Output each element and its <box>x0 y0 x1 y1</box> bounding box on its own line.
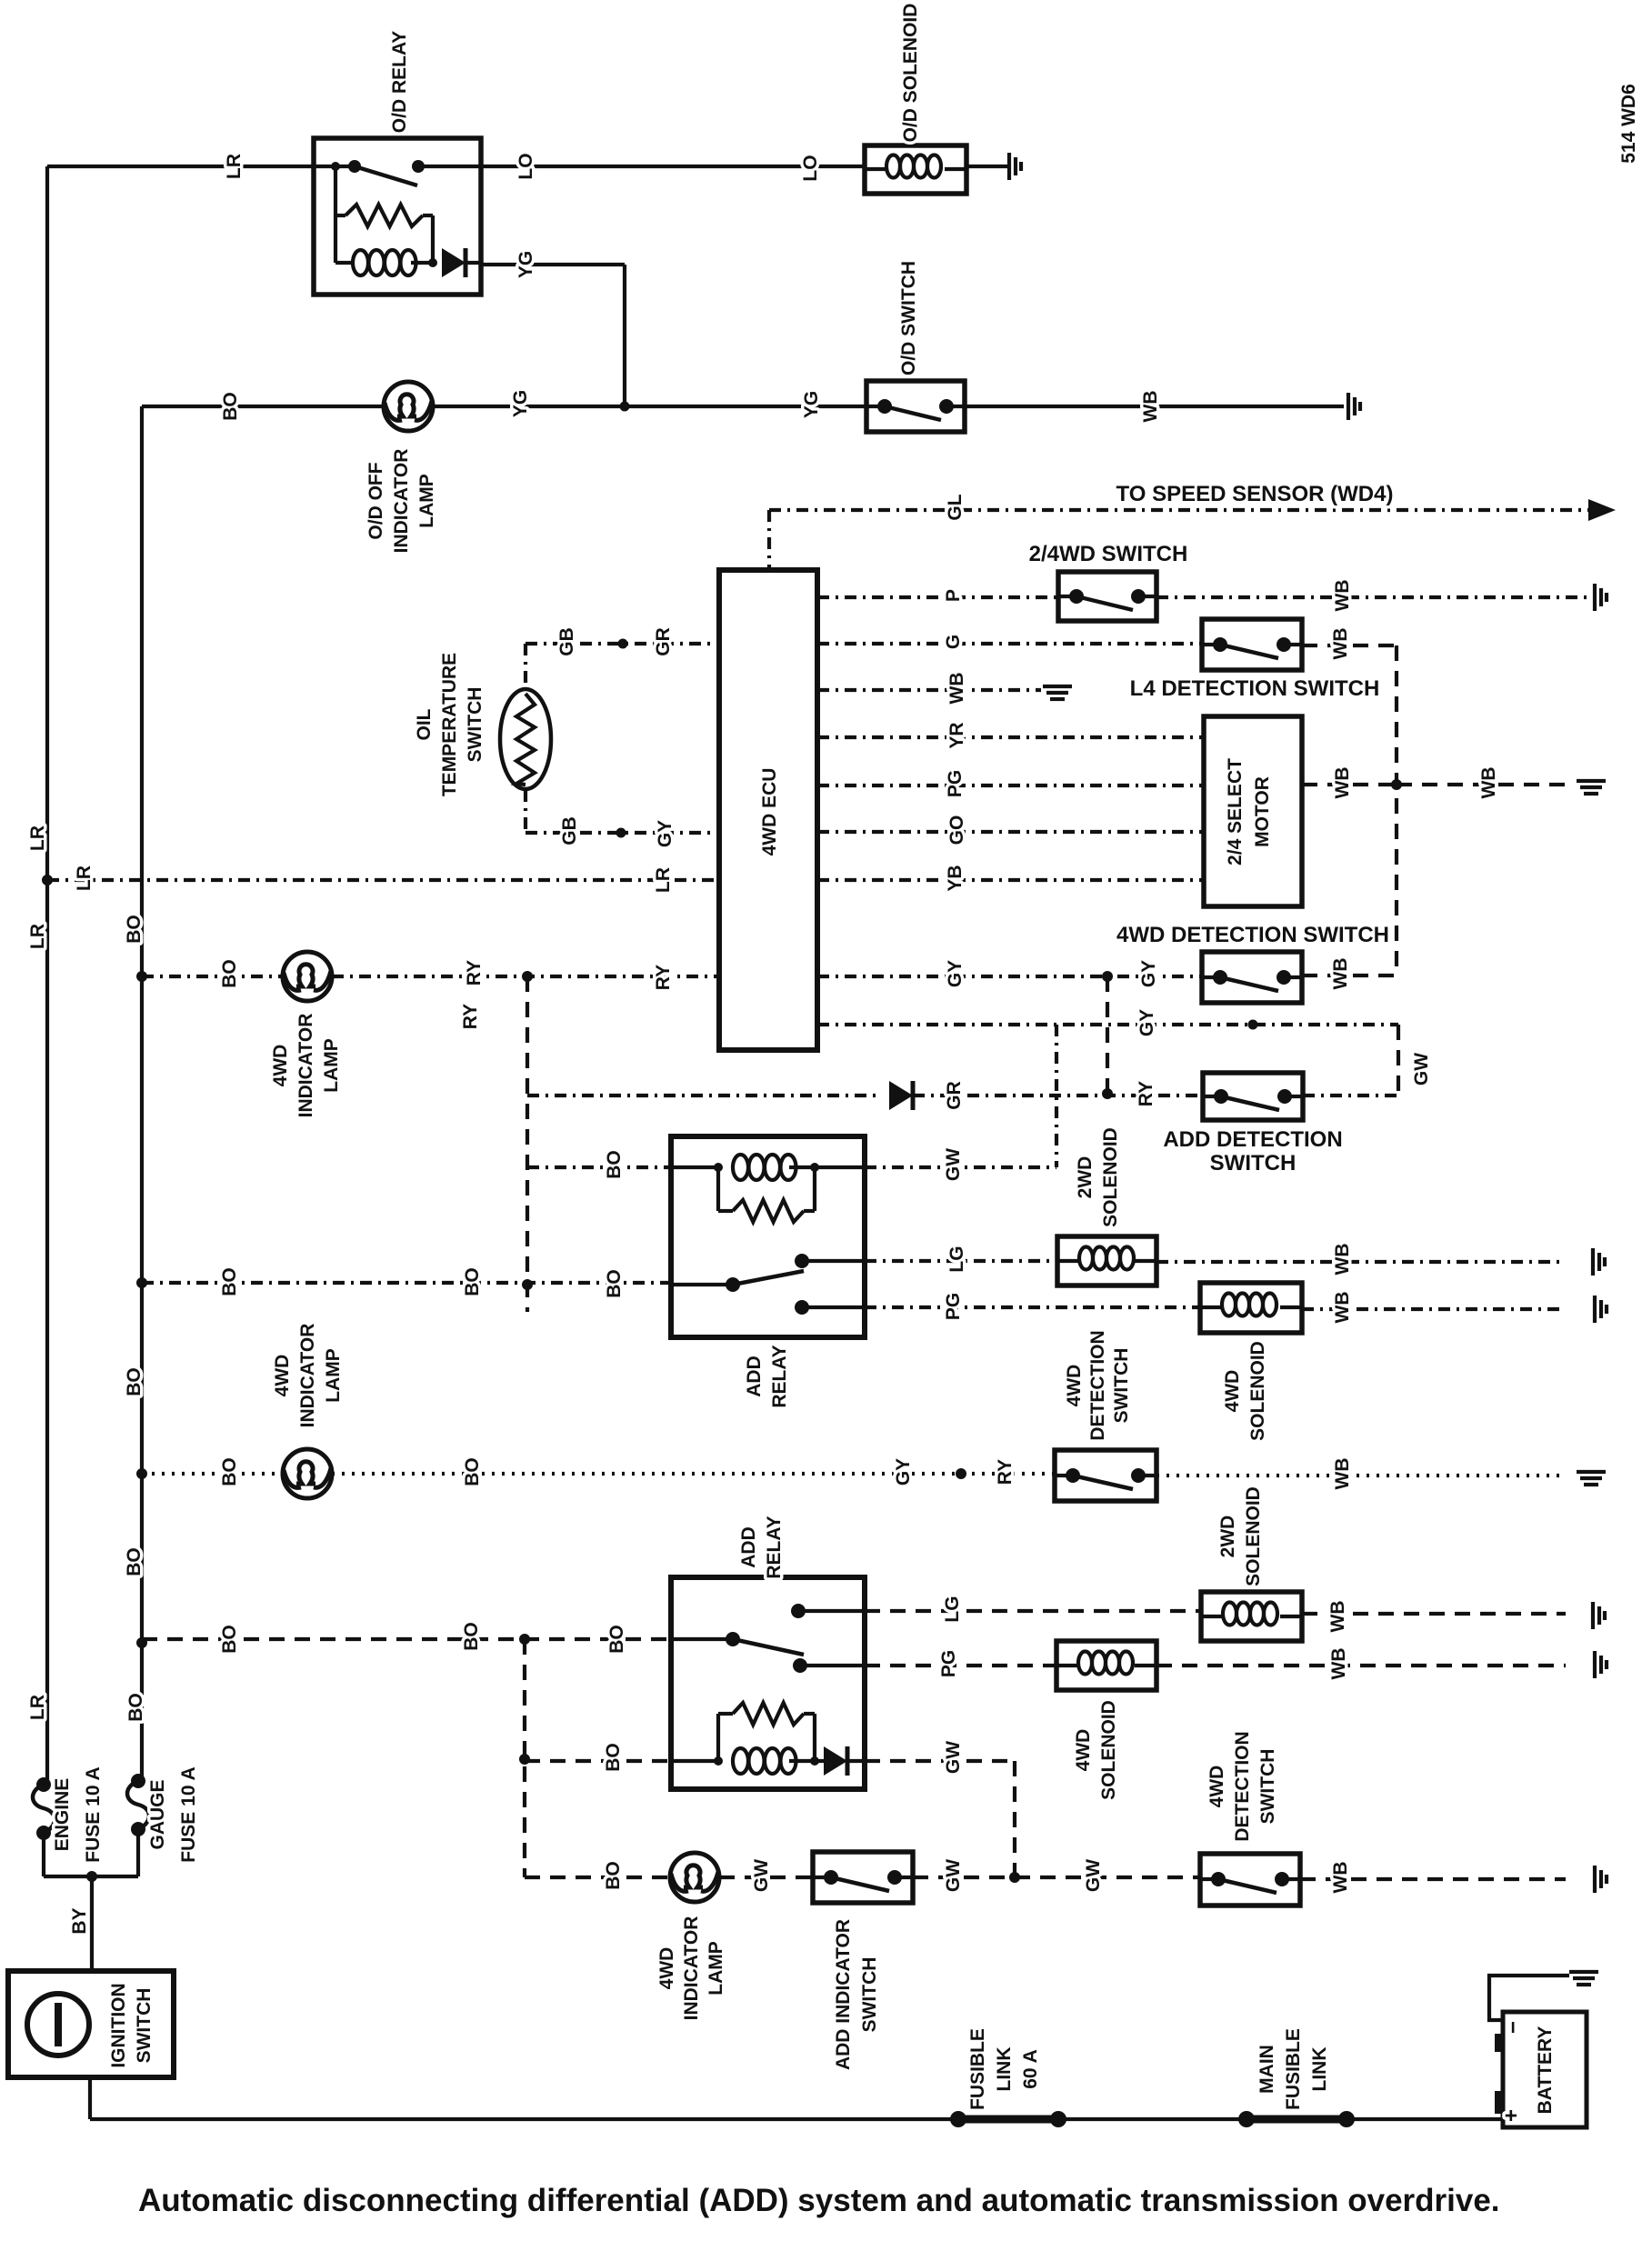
svg-text:LG: LG <box>946 1246 967 1272</box>
wire WB to ground <box>1156 595 1591 599</box>
ground 2WD solenoid <box>1593 1602 1605 1629</box>
svg-text:SOLENOID: SOLENOID <box>1247 1341 1268 1441</box>
wire GY to 4WD detection switch <box>817 975 1202 978</box>
wire WB from motor <box>1302 783 1397 786</box>
wire GW to ADD indicator switch <box>719 1876 813 1879</box>
svg-text:RY: RY <box>653 965 674 990</box>
ground 2/4WD switch <box>1595 584 1607 611</box>
fuse ENGINE FUSE 10 A <box>33 1777 55 1876</box>
svg-text:SWITCH: SWITCH <box>1210 1151 1297 1176</box>
wire PG to 4WD solenoid <box>865 1664 1056 1667</box>
svg-text:OIL: OIL <box>414 708 435 740</box>
wire GL into ECU top <box>767 510 771 570</box>
svg-text:LAMP: LAMP <box>321 1038 342 1093</box>
svg-text:LO: LO <box>516 153 536 179</box>
fusible link MAIN FUSIBLE LINK <box>1238 2111 1355 2127</box>
wire bottom bus <box>1058 2117 1247 2121</box>
wire GB GR to ECU <box>526 642 719 645</box>
junction BO <box>136 971 147 982</box>
svg-text:2WD: 2WD <box>1217 1516 1238 1558</box>
wire LR to ECU <box>47 878 719 882</box>
wire BO to ADD relay switch <box>142 1637 671 1641</box>
svg-text:PG: PG <box>938 1650 959 1677</box>
svg-text:LINK: LINK <box>994 2047 1015 2092</box>
ground select motor WB <box>1577 781 1606 794</box>
svg-text:4WD: 4WD <box>270 1045 291 1087</box>
svg-text:MAIN: MAIN <box>1257 2045 1277 2094</box>
wire GY vertical branch <box>1106 976 1109 1095</box>
wire BO second vertical bus <box>140 406 144 1781</box>
svg-text:O/D SOLENOID: O/D SOLENOID <box>900 4 921 143</box>
wire RY to ADD detection switch <box>913 1094 1202 1097</box>
wire from ignition switch <box>88 2077 92 2119</box>
wire LG to 2WD solenoid <box>865 1259 1057 1263</box>
wire YB to select motor <box>817 878 1204 882</box>
ECU 4WD ECU <box>719 570 817 1050</box>
svg-text:YG: YG <box>801 391 822 418</box>
wire WB to ground <box>1302 1307 1566 1311</box>
svg-text:WB: WB <box>1332 580 1353 612</box>
wire battery negative to ground <box>1489 1976 1569 2020</box>
wire GB GY to ECU <box>526 831 719 835</box>
svg-text:SWITCH: SWITCH <box>859 1957 880 2033</box>
svg-text:ADD: ADD <box>738 1526 759 1568</box>
svg-text:SWITCH: SWITCH <box>1111 1348 1132 1424</box>
svg-text:WB: WB <box>1140 391 1161 423</box>
svg-text:GW: GW <box>943 1859 964 1892</box>
svg-text:WB: WB <box>1328 1648 1349 1680</box>
svg-text:ADD: ADD <box>744 1356 765 1397</box>
svg-text:GAUGE: GAUGE <box>147 1779 168 1849</box>
wire GW from ADD relay <box>865 1759 1015 1763</box>
junction GY <box>1102 971 1113 982</box>
svg-text:GB: GB <box>556 627 577 656</box>
fusible link FUSIBLE LINK 60 A <box>950 2111 1066 2127</box>
svg-text:BO: BO <box>124 1547 145 1576</box>
svg-text:GR: GR <box>944 1081 965 1110</box>
svg-text:WB: WB <box>1330 628 1351 660</box>
diode in O/D relay <box>442 248 466 277</box>
svg-text:RELAY: RELAY <box>764 1516 785 1578</box>
wire GB from oil temp switch bottom <box>524 790 527 833</box>
svg-text:SOLENOID: SOLENOID <box>1243 1486 1264 1586</box>
svg-text:BO: BO <box>603 1743 624 1772</box>
svg-text:GW: GW <box>1411 1053 1432 1085</box>
junction WB <box>1391 779 1402 790</box>
svg-text:−: − <box>1501 2021 1526 2034</box>
junction BO <box>519 1754 530 1765</box>
wire GO to select motor <box>817 830 1204 834</box>
wire GL to speed sensor <box>769 508 1589 512</box>
svg-text:BO: BO <box>604 1150 625 1179</box>
svg-text:O/D RELAY: O/D RELAY <box>389 31 410 133</box>
svg-text:RELAY: RELAY <box>769 1345 790 1407</box>
svg-text:Automatic disconnecting differ: Automatic disconnecting differential (AD… <box>138 2183 1500 2218</box>
svg-text:GL: GL <box>945 494 966 520</box>
switch L4 DETECTION SWITCH <box>1202 619 1302 670</box>
switch 4WD DETECTION SWITCH <box>1200 1854 1300 1906</box>
svg-text:ENGINE: ENGINE <box>52 1778 73 1852</box>
svg-text:WB: WB <box>1330 1862 1351 1894</box>
svg-text:BO: BO <box>125 1693 146 1722</box>
arrow to speed sensor <box>1588 499 1616 521</box>
svg-text:LR: LR <box>27 825 48 851</box>
svg-text:SOLENOID: SOLENOID <box>1100 1127 1121 1227</box>
solenoid 2WD SOLENOID <box>1057 1236 1156 1286</box>
svg-text:SWITCH: SWITCH <box>465 687 486 763</box>
lamp 4WD INDICATOR LAMP <box>670 1853 719 1902</box>
svg-text:BO: BO <box>220 392 241 421</box>
junction <box>616 828 626 838</box>
svg-text:GW: GW <box>1083 1859 1104 1892</box>
svg-text:BO: BO <box>606 1625 627 1654</box>
svg-text:LR: LR <box>74 865 95 891</box>
svg-text:TEMPERATURE: TEMPERATURE <box>439 653 460 796</box>
svg-text:BO: BO <box>461 1622 482 1651</box>
ground 4WD detection switch <box>1577 1472 1606 1485</box>
svg-text:GY: GY <box>655 820 676 847</box>
svg-text:FUSIBLE: FUSIBLE <box>1283 2028 1304 2110</box>
svg-text:4WD: 4WD <box>1222 1370 1243 1413</box>
junction BO <box>136 1277 147 1288</box>
ground 2WD solenoid <box>1593 1248 1605 1276</box>
oil temperature switch <box>500 689 551 789</box>
relay ADD RELAY upper <box>671 1136 865 1337</box>
svg-text:2/4 SELECT: 2/4 SELECT <box>1225 758 1246 865</box>
diode on GR wire <box>889 1081 913 1110</box>
svg-text:WB: WB <box>1327 1601 1348 1633</box>
svg-text:IGNITION: IGNITION <box>108 1983 129 2067</box>
svg-text:BO: BO <box>219 1457 240 1486</box>
svg-text:DETECTION: DETECTION <box>1087 1330 1108 1440</box>
svg-text:BO: BO <box>219 1267 240 1296</box>
svg-text:BO: BO <box>603 1861 624 1890</box>
wire bottom bus <box>90 2117 958 2121</box>
wire RY to ECU <box>332 975 719 978</box>
svg-text:LR: LR <box>27 924 48 949</box>
svg-text:4WD: 4WD <box>1064 1365 1085 1407</box>
svg-text:DETECTION: DETECTION <box>1232 1731 1253 1841</box>
junction YG <box>620 402 630 412</box>
diode in ADD relay <box>824 1746 847 1776</box>
wire WB to ground <box>1156 1474 1566 1477</box>
ground ECU WB <box>1043 686 1072 699</box>
switch IGNITION SWITCH <box>8 1971 174 2077</box>
svg-text:514 WD6: 514 WD6 <box>1618 84 1639 164</box>
svg-text:L4 DETECTION SWITCH: L4 DETECTION SWITCH <box>1130 676 1380 701</box>
svg-text:GY: GY <box>1136 1009 1157 1036</box>
lamp O/D OFF INDICATOR LAMP <box>384 382 433 431</box>
svg-text:O/D OFF: O/D OFF <box>365 462 386 539</box>
wire to ground <box>966 165 1007 168</box>
svg-text:BO: BO <box>604 1269 625 1298</box>
junction <box>1102 1088 1113 1099</box>
svg-text:ADD DETECTION: ADD DETECTION <box>1163 1127 1342 1152</box>
wire BY to ignition switch <box>90 1876 94 1971</box>
ground 4WD detection switch <box>1595 1866 1607 1893</box>
svg-text:LG: LG <box>942 1596 963 1622</box>
wire WB to ground <box>1397 783 1566 786</box>
svg-text:LR: LR <box>27 1695 48 1720</box>
svg-text:LAMP: LAMP <box>416 474 437 528</box>
svg-text:G: G <box>943 635 964 649</box>
svg-text:2WD: 2WD <box>1075 1156 1096 1199</box>
wire WB to ground <box>1302 1612 1566 1616</box>
junction <box>956 1468 966 1479</box>
svg-text:4WD ECU: 4WD ECU <box>759 768 780 856</box>
battery BATTERY <box>1498 2012 1587 2127</box>
svg-text:YG: YG <box>516 251 536 278</box>
svg-text:INDICATOR: INDICATOR <box>295 1014 316 1118</box>
svg-text:FUSIBLE: FUSIBLE <box>967 2028 988 2110</box>
wire GW vertical <box>1013 1761 1016 1877</box>
wire WB to ground <box>817 688 1041 692</box>
ground O/D solenoid <box>1009 153 1021 180</box>
wire WB from L4 switch <box>1302 644 1397 647</box>
wire WB from 4WD detection switch <box>1302 974 1397 977</box>
wire WB to ground <box>965 405 1344 408</box>
svg-text:ADD INDICATOR: ADD INDICATOR <box>833 1919 854 2070</box>
junction RY BO <box>522 1279 533 1290</box>
svg-text:YR: YR <box>946 722 967 748</box>
ground 4WD solenoid <box>1595 1651 1607 1678</box>
switch 4WD DETECTION SWITCH <box>1055 1450 1156 1501</box>
relay O/D RELAY <box>314 138 481 295</box>
svg-text:WB: WB <box>946 673 967 705</box>
solenoid 4WD SOLENOID <box>1056 1641 1156 1690</box>
svg-text:BO: BO <box>462 1267 483 1296</box>
lamp 4WD INDICATOR LAMP <box>283 1449 332 1498</box>
wire BO to 4WD indicator lamp <box>525 1876 670 1879</box>
wire joining fuses <box>44 1875 138 1878</box>
switch 4WD DETECTION SWITCH <box>1202 952 1302 1003</box>
wire LG to 2WD solenoid <box>865 1609 1201 1613</box>
svg-text:RY: RY <box>995 1459 1016 1485</box>
svg-text:SWITCH: SWITCH <box>1257 1749 1278 1825</box>
svg-text:4WD: 4WD <box>656 1947 677 1990</box>
wire G to L4 detection switch <box>817 642 1202 645</box>
wire BO to 4WD indicator lamp <box>142 1472 283 1476</box>
svg-text:LAMP: LAMP <box>323 1348 344 1403</box>
junction LR <box>42 875 53 885</box>
wire from ADD detection switch to GW <box>1303 1094 1398 1097</box>
svg-text:INDICATOR: INDICATOR <box>681 1916 702 2021</box>
wire YG to O/D switch <box>433 405 866 408</box>
svg-text:TO SPEED SENSOR (WD4): TO SPEED SENSOR (WD4) <box>1116 482 1394 506</box>
wire GW to 4WD detection switch <box>913 1876 1200 1879</box>
wire YG vertical <box>623 265 626 406</box>
svg-text:4WD: 4WD <box>272 1355 293 1397</box>
wire YG from O/D relay <box>481 263 625 266</box>
svg-text:4WD DETECTION SWITCH: 4WD DETECTION SWITCH <box>1116 923 1389 947</box>
svg-text:O/D SWITCH: O/D SWITCH <box>898 261 919 375</box>
wire PG to 4WD solenoid <box>865 1306 1200 1309</box>
svg-text:WB: WB <box>1332 1292 1353 1324</box>
svg-text:RY: RY <box>464 960 485 985</box>
fuse GAUGE FUSE 10 A <box>127 1774 149 1876</box>
wire GY from ECU to GW branch <box>817 1023 1398 1026</box>
svg-text:YB: YB <box>945 865 966 891</box>
svg-text:GW: GW <box>943 1741 964 1774</box>
svg-text:LINK: LINK <box>1309 2047 1330 2092</box>
wire WB to ground <box>1156 1664 1566 1667</box>
junction <box>618 639 628 649</box>
svg-text:GY: GY <box>945 960 966 987</box>
wire YR to select motor <box>817 735 1204 739</box>
svg-text:WB: WB <box>1330 958 1351 990</box>
switch 2/4WD SWITCH <box>1058 572 1156 621</box>
svg-text:BO: BO <box>462 1457 483 1486</box>
svg-text:LAMP: LAMP <box>706 1941 726 1996</box>
wire GW vertical <box>1397 1025 1400 1095</box>
svg-text:RY: RY <box>1136 1081 1156 1106</box>
junction BO <box>136 1468 147 1479</box>
wire BO to ADD relay coil <box>527 1166 671 1169</box>
svg-text:BATTERY: BATTERY <box>1535 2026 1556 2115</box>
svg-text:GW: GW <box>751 1859 772 1892</box>
svg-text:GY: GY <box>893 1458 914 1486</box>
wire bottom bus to battery <box>1347 2117 1503 2121</box>
wire LR to O/D relay <box>47 165 314 168</box>
wire WB to ground <box>1300 1877 1566 1881</box>
svg-text:FUSE 10 A: FUSE 10 A <box>83 1766 104 1862</box>
svg-text:WB: WB <box>1478 767 1499 799</box>
svg-text:BO: BO <box>124 1367 145 1396</box>
svg-text:+: + <box>1499 2109 1524 2122</box>
wire PG to select motor <box>817 784 1204 787</box>
wire BO to ADD relay switch <box>142 1281 671 1285</box>
wire GY to 4WD detection switch <box>332 1472 1055 1476</box>
wire BO to 4WD indicator lamp <box>142 975 283 978</box>
svg-text:P: P <box>943 589 964 602</box>
svg-text:WB: WB <box>1332 767 1353 799</box>
relay ADD RELAY lower <box>671 1577 865 1789</box>
solenoid O/D SOLENOID <box>865 145 966 194</box>
wire GR from RY branch <box>527 1094 878 1097</box>
svg-text:60 A: 60 A <box>1020 2049 1041 2089</box>
switch ADD INDICATOR SWITCH <box>813 1852 913 1903</box>
svg-text:RY: RY <box>460 1004 481 1029</box>
wire GB from oil temp switch top <box>524 644 527 688</box>
svg-text:BO: BO <box>219 959 240 988</box>
junction BO <box>136 1637 147 1648</box>
svg-text:LR: LR <box>653 867 674 893</box>
svg-text:SOLENOID: SOLENOID <box>1098 1700 1119 1800</box>
svg-text:GR: GR <box>653 627 674 656</box>
svg-text:GW: GW <box>943 1148 964 1181</box>
wire WB to ground <box>1156 1260 1566 1264</box>
svg-text:4WD: 4WD <box>1073 1729 1094 1772</box>
svg-text:LR: LR <box>224 154 245 179</box>
ground 4WD solenoid <box>1595 1296 1607 1323</box>
wire GW vertical to ECU row <box>1055 1025 1058 1167</box>
ground battery <box>1569 1972 1598 1985</box>
svg-text:YG: YG <box>510 390 531 417</box>
wire LO <box>481 165 865 168</box>
svg-text:WB: WB <box>1332 1458 1353 1490</box>
wire BO to ADD relay coil <box>525 1759 671 1763</box>
svg-text:PG: PG <box>943 1293 964 1320</box>
svg-text:BO: BO <box>124 915 145 944</box>
wire RY vertical branch <box>526 976 529 1312</box>
lamp 4WD INDICATOR LAMP <box>283 952 332 1001</box>
svg-text:LO: LO <box>800 155 821 181</box>
switch O/D SWITCH <box>866 381 965 432</box>
wire BO to O/D OFF indicator lamp <box>142 405 384 408</box>
svg-text:PG: PG <box>945 770 966 797</box>
junction <box>1248 1020 1258 1030</box>
wire BO vertical branch lower <box>523 1639 526 1877</box>
svg-text:INDICATOR: INDICATOR <box>391 449 412 554</box>
svg-text:GY: GY <box>1138 960 1159 987</box>
svg-text:INDICATOR: INDICATOR <box>297 1324 318 1428</box>
svg-text:BY: BY <box>69 1907 90 1934</box>
svg-text:BO: BO <box>219 1625 240 1654</box>
junction BO <box>519 1634 530 1645</box>
svg-text:FUSE 10 A: FUSE 10 A <box>178 1766 199 1862</box>
solenoid 4WD SOLENOID <box>1200 1283 1302 1333</box>
switch ADD DETECTION SWITCH <box>1203 1073 1303 1120</box>
junction RY <box>522 971 533 982</box>
solenoid 2WD SOLENOID <box>1201 1592 1302 1641</box>
wire LR left vertical bus <box>45 166 49 1785</box>
svg-text:WB: WB <box>1332 1244 1353 1276</box>
svg-text:2/4WD SWITCH: 2/4WD SWITCH <box>1029 542 1188 566</box>
junction BY <box>86 1871 97 1882</box>
motor 2/4 SELECT MOTOR <box>1204 716 1302 906</box>
wire P to 2/4WD switch <box>817 595 1058 599</box>
ground O/D switch <box>1348 393 1360 420</box>
svg-text:GB: GB <box>559 816 580 845</box>
svg-text:MOTOR: MOTOR <box>1252 776 1273 847</box>
wire GW from ADD relay coil <box>865 1166 1056 1169</box>
wire WB common vertical <box>1395 645 1398 976</box>
svg-text:GO: GO <box>946 815 967 845</box>
junction GW <box>1009 1872 1020 1883</box>
svg-text:SWITCH: SWITCH <box>134 1988 155 2064</box>
svg-text:4WD: 4WD <box>1206 1766 1227 1808</box>
